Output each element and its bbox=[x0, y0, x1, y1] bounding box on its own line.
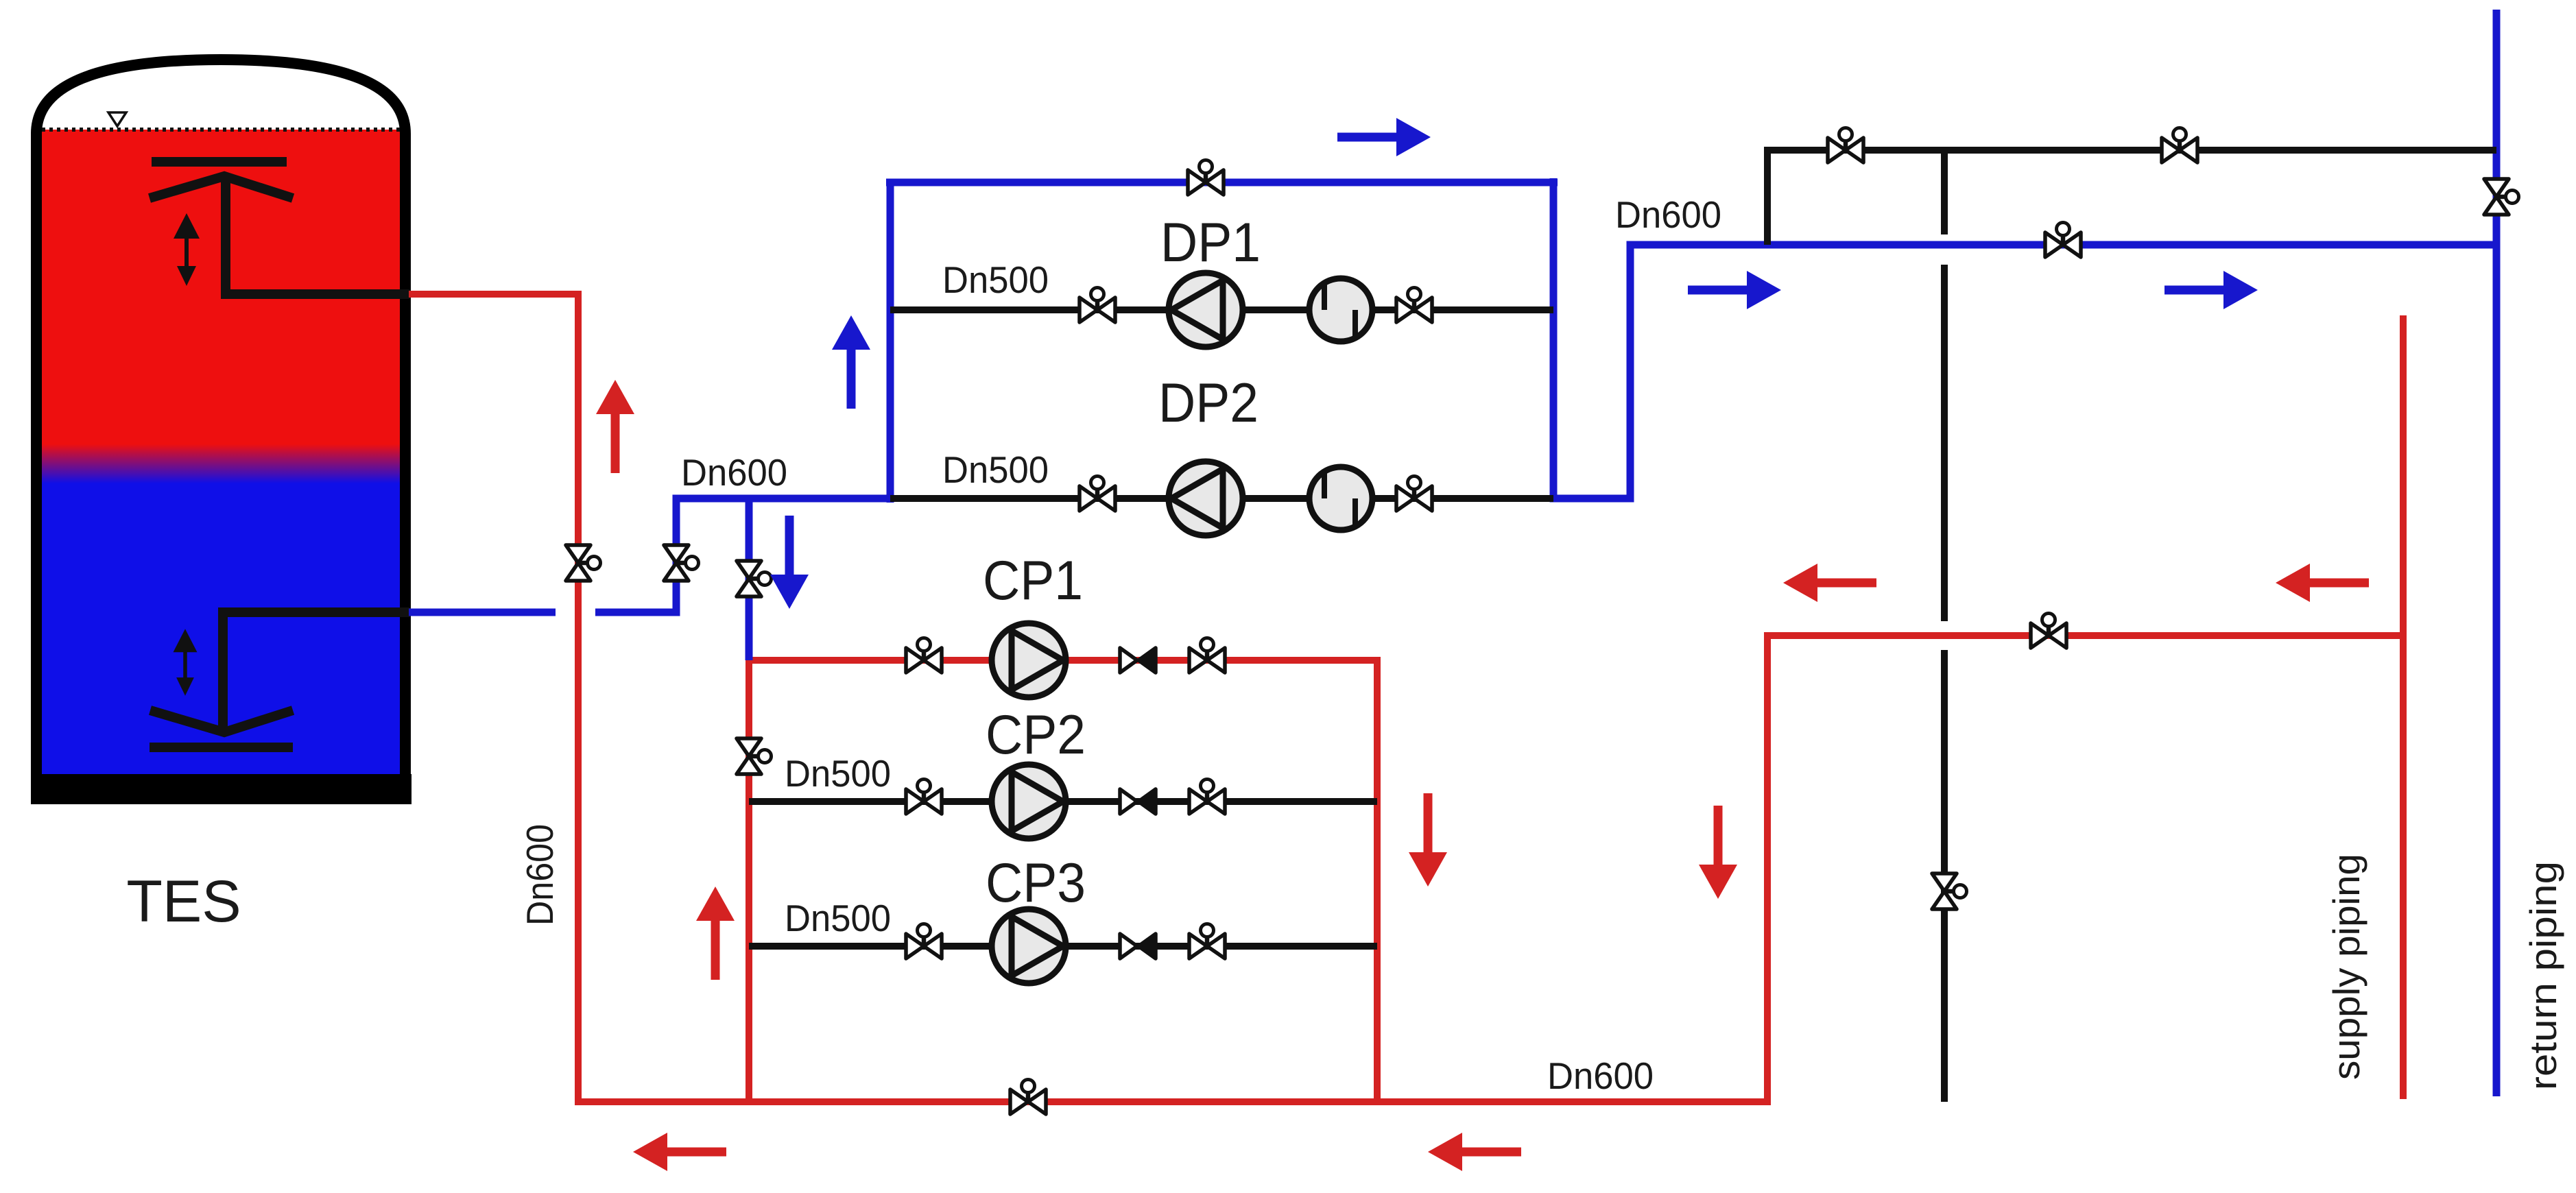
pipe cold return from tank segment b, riser and Dn600 header (blue) bbox=[595, 498, 890, 612]
flow arrow blue right (east header east end) bbox=[2164, 271, 2258, 309]
tank TES fill (hot red over cold blue) bbox=[41, 130, 401, 774]
check valve CP3 bbox=[1120, 934, 1156, 959]
valve consumer top header east bbox=[2162, 128, 2197, 163]
pipe DP manifold right vertical with jog and east Dn600 header (blue) bbox=[1553, 178, 2496, 498]
flow arrow red up (CP manifold left) bbox=[696, 887, 735, 980]
valve on east red header bbox=[2031, 614, 2066, 649]
flow arrow red up (tank supply riser) bbox=[596, 380, 634, 473]
pipe DP manifold top header (blue) bbox=[886, 179, 1558, 186]
svg-text:supply piping: supply piping bbox=[2325, 854, 2368, 1080]
pump CP3 bbox=[992, 909, 1066, 983]
valve CP1 discharge bbox=[1189, 638, 1225, 673]
svg-text:Dn500: Dn500 bbox=[785, 752, 891, 795]
tank top diffuser plate bbox=[152, 157, 287, 167]
tank top level-motion arrow bbox=[174, 213, 200, 286]
valve on red CP manifold left vertical bbox=[737, 738, 772, 774]
pipe cold return from tank segment a (blue) bbox=[409, 609, 556, 616]
flow arrow red left (east red header east) bbox=[1783, 564, 1876, 602]
valve on bottom red return header bbox=[1010, 1080, 1046, 1115]
valve on red drop from tank bbox=[566, 545, 601, 581]
flow arrow blue down (to CP manifold) bbox=[770, 516, 809, 609]
tank TES bottom plate bbox=[31, 774, 412, 804]
pipe CP3 row (black) bbox=[749, 943, 1377, 950]
svg-text:Dn600: Dn600 bbox=[1615, 193, 1721, 236]
flow meter DP2 bbox=[1309, 467, 1372, 530]
valve on consumer mid vertical bbox=[1932, 873, 1967, 909]
pipe consumer mid vertical upper segment (black) bbox=[1941, 150, 1948, 234]
valve DP1 suction bbox=[1080, 288, 1115, 323]
tank water level dotted line bbox=[42, 128, 401, 132]
flow arrow red down (east riser) bbox=[1699, 806, 1737, 899]
valve CP3 discharge bbox=[1189, 924, 1225, 959]
valve DP2 discharge bbox=[1396, 477, 1432, 511]
check valve CP2 bbox=[1120, 789, 1156, 814]
pipe DP1 row (black) bbox=[890, 306, 1553, 313]
valve CP1 suction bbox=[906, 638, 942, 673]
flow arrow red left (bottom header mid) bbox=[1428, 1133, 1521, 1171]
pump CP1 bbox=[992, 623, 1066, 697]
flow meter DP1 bbox=[1309, 278, 1372, 341]
pipe return piping vertical (blue) bbox=[2493, 10, 2501, 1096]
flow arrow blue up (to DP manifold) bbox=[832, 315, 870, 409]
pipe consumer mid vertical lower segment (black) bbox=[1941, 650, 1948, 1102]
check valve CP1 bbox=[1120, 648, 1156, 673]
valve CP2 discharge bbox=[1189, 780, 1225, 815]
svg-text:return piping: return piping bbox=[2522, 861, 2564, 1090]
tank level indicator triangle bbox=[108, 112, 126, 126]
flow arrow blue right (DP top header) bbox=[1337, 118, 1431, 156]
tank bottom diffuser plate bbox=[150, 743, 293, 752]
svg-text:Dn600: Dn600 bbox=[681, 451, 787, 494]
pipe hot supply from tank: right, down, along bottom, up and east (red Dn600) bbox=[409, 294, 2403, 1102]
valve on blue DP top header bbox=[1188, 160, 1224, 195]
flow arrow red left (bottom header west) bbox=[633, 1133, 726, 1171]
svg-text:CP1: CP1 bbox=[983, 550, 1083, 612]
pipe CP manifold right vertical (red) bbox=[1374, 657, 1381, 1105]
valve DP1 discharge bbox=[1396, 288, 1432, 323]
svg-text:Dn500: Dn500 bbox=[942, 258, 1049, 301]
valve on return piping vertical bbox=[2484, 179, 2519, 215]
pump CP2 bbox=[992, 764, 1066, 839]
pipe blue drop to CP manifold bbox=[746, 498, 753, 660]
svg-text:Dn500: Dn500 bbox=[785, 897, 891, 939]
tank top diffuser cone bbox=[150, 176, 293, 198]
tank TES shell outline bbox=[36, 60, 405, 788]
flow arrow blue right (east header west end) bbox=[1688, 271, 1781, 309]
tank bottom level-motion arrow bbox=[174, 629, 198, 696]
pipe consumer mid vertical middle segment (black) bbox=[1941, 265, 1948, 621]
pipe CP1 row (red) bbox=[746, 657, 1381, 664]
valve DP2 suction bbox=[1080, 477, 1115, 511]
pipe DP manifold left vertical (blue) bbox=[887, 182, 894, 503]
flow arrow red left (east red header far east) bbox=[2276, 564, 2369, 602]
svg-text:CP2: CP2 bbox=[986, 704, 1086, 766]
pump DP2 bbox=[1169, 461, 1243, 535]
tank bottom diffuser cone bbox=[150, 710, 293, 732]
flow arrow red down (CP manifold right) bbox=[1409, 793, 1447, 887]
pipe CP manifold left vertical (red) bbox=[746, 657, 752, 1102]
valve on east blue Dn600 header bbox=[2045, 223, 2081, 258]
svg-text:DP2: DP2 bbox=[1158, 372, 1259, 434]
svg-text:TES: TES bbox=[126, 869, 241, 935]
tank top internal pipe bbox=[226, 177, 410, 294]
valve consumer top header west bbox=[1828, 128, 1863, 163]
tank bottom internal pipe bbox=[223, 612, 410, 731]
svg-text:CP3: CP3 bbox=[986, 852, 1086, 914]
svg-text:Dn600: Dn600 bbox=[518, 824, 561, 926]
valve on blue drop to CP manifold bbox=[737, 561, 772, 596]
pipe consumer top header (black) bbox=[1767, 150, 2496, 245]
svg-text:Dn500: Dn500 bbox=[942, 448, 1049, 491]
pump DP1 bbox=[1169, 273, 1243, 347]
pipe CP2 row (black) bbox=[749, 798, 1377, 805]
valve on blue riser from tank bbox=[664, 545, 699, 581]
valve CP2 suction bbox=[906, 780, 942, 815]
svg-text:Dn600: Dn600 bbox=[1547, 1055, 1654, 1097]
pipe DP2 row (black) bbox=[890, 495, 1553, 502]
svg-text:DP1: DP1 bbox=[1160, 212, 1261, 274]
valve CP3 suction bbox=[906, 924, 942, 959]
pipe supply piping vertical (red) bbox=[2400, 315, 2407, 1099]
